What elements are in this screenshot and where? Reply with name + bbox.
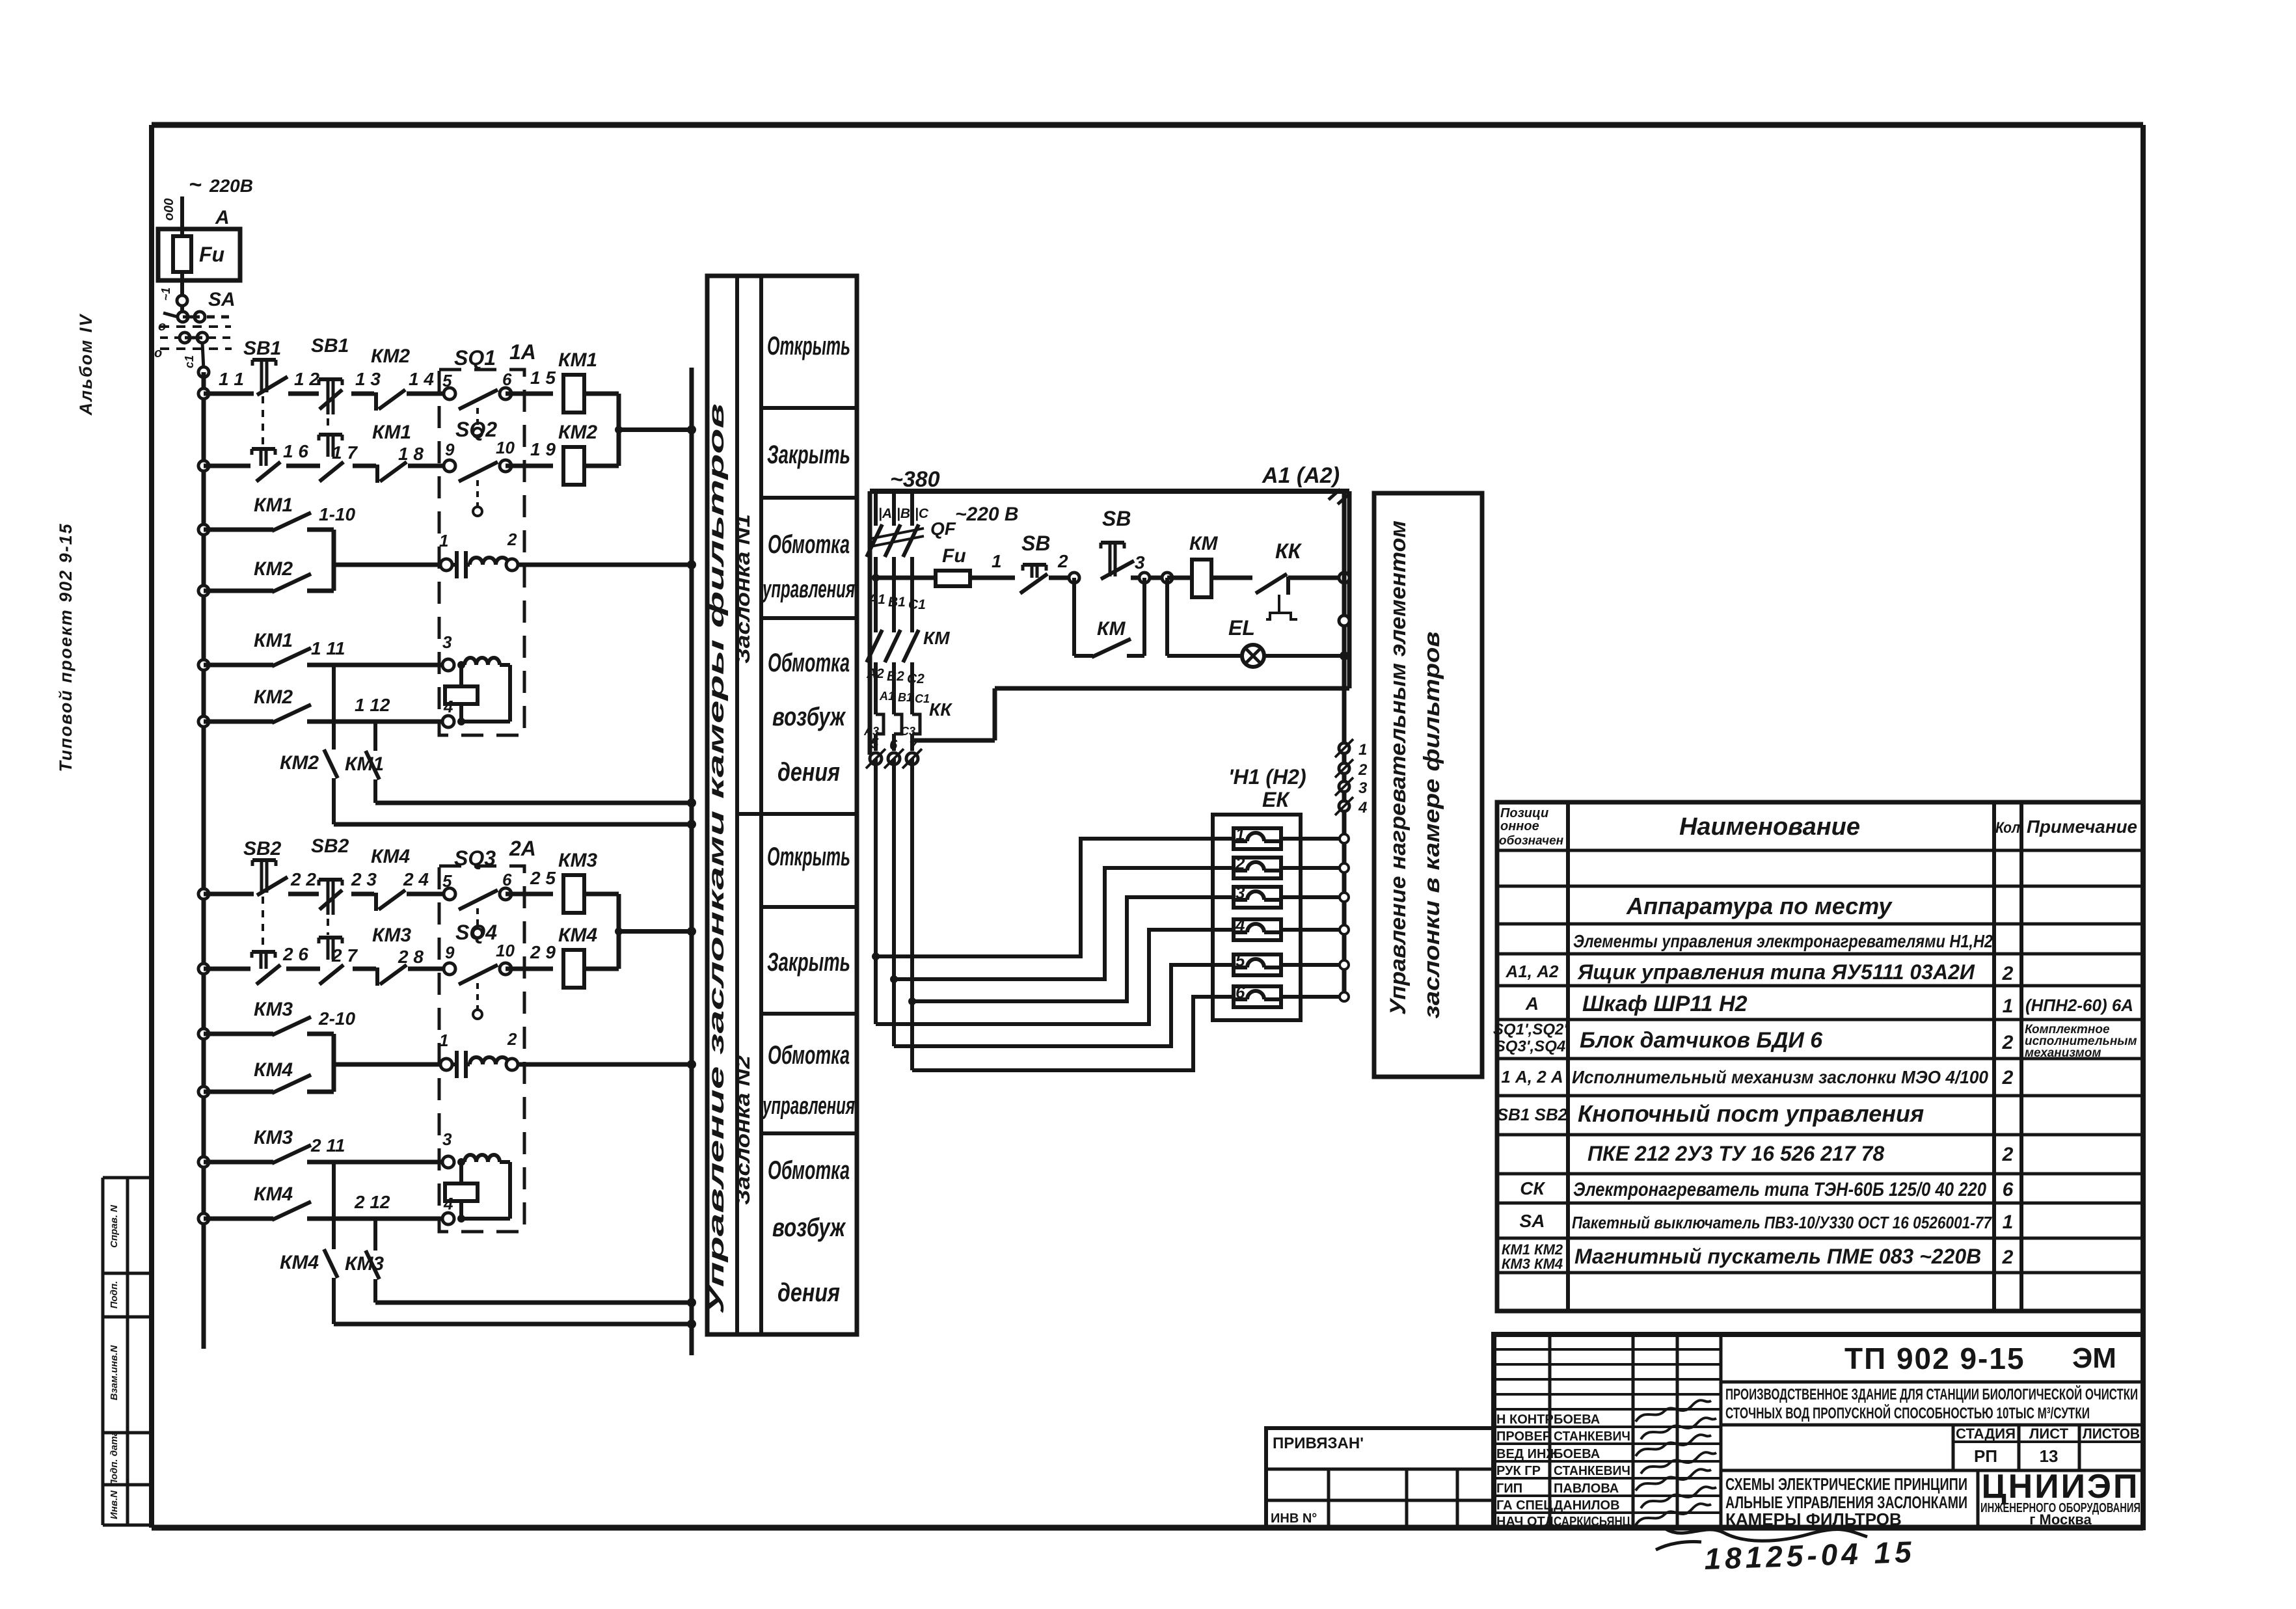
- pushbutton SB1 second contact rung close: [252, 447, 275, 451]
- interlock wire to bus: [375, 801, 692, 805]
- return wire of control circuit: [995, 686, 1349, 691]
- svg-text:ДАНИЛОВ: ДАНИЛОВ: [1554, 1498, 1620, 1513]
- svg-text:ЛИСТ: ЛИСТ: [2029, 1426, 2069, 1442]
- title block stage/sheet box: [1952, 1425, 1955, 1470]
- svg-text:КМ: КМ: [1097, 618, 1126, 640]
- svg-text:2: 2: [2002, 1067, 2014, 1088]
- svg-text:9: 9: [445, 440, 455, 459]
- heater element 1 wire to N bus: [1281, 837, 1344, 841]
- svg-text:КМ1: КМ1: [254, 630, 293, 651]
- svg-text:КМ: КМ: [1189, 533, 1218, 554]
- interlock wire to bus: [334, 822, 692, 827]
- signal lamp EL branch: [1165, 578, 1169, 656]
- heater phase staircase wiring: [874, 759, 878, 1024]
- svg-text:SQ1: SQ1: [454, 346, 496, 370]
- svg-text:обозначен: обозначен: [1499, 834, 1564, 848]
- phase wires to KM contacts: [874, 557, 878, 632]
- wire: [351, 392, 374, 396]
- wire into actuator box: [408, 967, 450, 971]
- svg-text:Инв.N: Инв.N: [109, 1490, 120, 1519]
- svg-text:10: 10: [496, 941, 515, 960]
- heater element 5: [1234, 954, 1281, 975]
- svg-text:А1 (А2): А1 (А2): [1262, 463, 1340, 488]
- wire label 2, node: [1049, 576, 1074, 580]
- svg-text:С1: С1: [915, 692, 930, 705]
- svg-text:2: 2: [1235, 854, 1245, 873]
- wire to coil: [506, 392, 553, 396]
- wire to control winding: [334, 1062, 446, 1067]
- svg-text:SQ4: SQ4: [455, 921, 497, 944]
- wire coil to return: [584, 464, 619, 468]
- svg-text:ГА СПЕЦ: ГА СПЕЦ: [1496, 1498, 1553, 1513]
- svg-text:|А: |А: [878, 506, 892, 521]
- interlock contact КМ4 NC (vertical): [332, 1162, 336, 1249]
- attachment table PRIVYAZAN: [1266, 1428, 1494, 1528]
- svg-text:Электронагреватель типа ТЭН-6: Электронагреватель типа ТЭН-60Б 125/0 40…: [1573, 1179, 1986, 1200]
- brake loop right side: [508, 1162, 512, 1219]
- svg-text:КАМЕРЫ ФИЛЬТРОВ: КАМЕРЫ ФИЛЬТРОВ: [1725, 1509, 1902, 1529]
- svg-text:КМ4: КМ4: [254, 1059, 293, 1081]
- svg-text:Магнитный пускатель ПМЕ 083: Магнитный пускатель ПМЕ 083 ~220В: [1574, 1245, 1981, 1268]
- box A1 right edge: [1347, 491, 1352, 688]
- svg-text:дения: дения: [777, 758, 840, 787]
- wire coil to thermal contact KK: [1211, 576, 1252, 580]
- wire brake top, terminal 3: [307, 1160, 442, 1165]
- left margin stamp strip: [101, 1178, 105, 1525]
- svg-text:3: 3: [442, 632, 452, 652]
- bracket join of aux contacts: [332, 530, 336, 591]
- svg-text:ВЕД ИНЖ: ВЕД ИНЖ: [1496, 1447, 1558, 1461]
- excitation winding inductor: [465, 658, 476, 665]
- auxiliary contact КМ1 NO brake row: [198, 660, 209, 670]
- svg-text:Пакетный выключатель ПВ3-10/У3: Пакетный выключатель ПВ3-10/У330 ОСТ 16 …: [1572, 1213, 1992, 1232]
- svg-text:РУК ГР: РУК ГР: [1496, 1464, 1541, 1478]
- svg-text:1 А, 2 А: 1 А, 2 А: [1501, 1067, 1563, 1087]
- heater element 4: [1234, 919, 1281, 940]
- svg-text:2 2: 2 2: [290, 869, 316, 889]
- auxiliary contact КМ2 NO brake bottom row: [198, 716, 209, 727]
- svg-text:1: 1: [1236, 824, 1245, 844]
- svg-text:А: А: [1525, 994, 1539, 1014]
- wire to coil: [506, 892, 553, 897]
- heater element 3 wire to N bus: [1281, 895, 1344, 899]
- heater element 4 wire to N bus: [1281, 928, 1344, 932]
- interlock contact КМ3 NC (vertical): [373, 1219, 377, 1251]
- wire brake top, terminal 3: [307, 663, 442, 668]
- svg-text:БОЕВА: БОЕВА: [1554, 1413, 1600, 1427]
- wire to coil: [506, 967, 553, 971]
- parts table grid: [1497, 802, 2143, 1311]
- svg-text:~1: ~1: [159, 288, 172, 301]
- heater feed wire 2: [894, 868, 1234, 979]
- svg-text:SQ2: SQ2: [455, 418, 497, 441]
- svg-text:6: 6: [2003, 1179, 2014, 1200]
- svg-text:КМ2: КМ2: [254, 686, 293, 708]
- drawing border frame: [152, 122, 2143, 128]
- svg-text:ПАВЛОВА: ПАВЛОВА: [1554, 1481, 1619, 1496]
- svg-text:2 8: 2 8: [398, 947, 424, 967]
- heater element 5 wire to N bus: [1281, 963, 1344, 967]
- svg-text:SB2: SB2: [243, 838, 282, 859]
- svg-text:Альбом IV: Альбом IV: [76, 314, 96, 416]
- svg-text:Шкаф ШР11 Н2: Шкаф ШР11 Н2: [1582, 992, 1748, 1016]
- svg-text:4: 4: [1235, 915, 1245, 935]
- svg-text:ТП 902 9-15: ТП 902 9-15: [1844, 1342, 2025, 1375]
- svg-text:КМ2: КМ2: [558, 422, 597, 443]
- auxiliary contact КМ3 NO brake row: [198, 1157, 209, 1167]
- svg-text:4: 4: [1358, 799, 1367, 817]
- actuator block 2А (dashed box): [439, 866, 524, 1232]
- wire: [351, 892, 374, 897]
- svg-text:1: 1: [992, 551, 1002, 571]
- auxiliary contact КМ3 NO: [198, 1029, 209, 1039]
- bracket join of aux contacts: [332, 1034, 336, 1092]
- svg-text:Типовой проект 902 9-15: Типовой проект 902 9-15: [56, 522, 75, 772]
- svg-text:Fu: Fu: [199, 243, 224, 266]
- svg-text:Подп. дата: Подп. дата: [109, 1431, 120, 1487]
- svg-text:1 5: 1 5: [530, 368, 556, 388]
- svg-text:ЕК: ЕК: [1262, 788, 1290, 811]
- svg-text:SB1: SB1: [243, 338, 281, 359]
- wire brake bottom, terminal 4: [307, 1217, 442, 1221]
- svg-text:КМ3: КМ3: [345, 1253, 384, 1275]
- title block outline: [1494, 1334, 2143, 1528]
- interlock contact КМ2 NC (vertical): [332, 665, 336, 750]
- node below fuse: [177, 295, 187, 306]
- svg-text:~380: ~380: [890, 467, 940, 492]
- svg-text:5: 5: [871, 735, 879, 751]
- svg-text:ЦНИИЭП: ЦНИИЭП: [1982, 1468, 2140, 1506]
- svg-text:1: 1: [439, 531, 448, 550]
- svg-text:управления: управления: [762, 576, 855, 603]
- wire into actuator box: [408, 464, 450, 468]
- wire to coil: [506, 464, 553, 468]
- svg-text:КМ1: КМ1: [558, 349, 597, 371]
- svg-text:SA: SA: [208, 289, 236, 310]
- heater feed wire 5: [894, 965, 1234, 1046]
- svg-text:КМ4: КМ4: [254, 1183, 293, 1205]
- wire: [353, 464, 376, 468]
- svg-text:СТОЧНЫХ ВОД ПРОПУСКНОЙ СПОСОБН: СТОЧНЫХ ВОД ПРОПУСКНОЙ СПОСОБНОСТЬЮ 10ТЫ…: [1725, 1404, 2090, 1422]
- pushbutton SB1 second NO contact rung close: [319, 433, 342, 437]
- svg-text:220В: 220В: [209, 176, 253, 196]
- svg-text:1: 1: [439, 1031, 448, 1050]
- title block signatures (scribbles): [1636, 1400, 1711, 1422]
- svg-text:КМ3: КМ3: [254, 1127, 293, 1148]
- svg-text:КМ: КМ: [923, 628, 950, 648]
- title block signature rows: [1494, 1348, 1721, 1351]
- heater feed wire 6: [912, 997, 1234, 1070]
- svg-text:механизмом: механизмом: [2025, 1046, 2101, 1060]
- svg-text:2 9: 2 9: [530, 942, 556, 962]
- svg-text:2 3: 2 3: [351, 869, 377, 889]
- heater feed wire 4: [876, 930, 1234, 1024]
- heater feed wire 3: [912, 897, 1234, 1001]
- svg-text:КМ4: КМ4: [280, 1252, 319, 1273]
- actuator block 1А (dashed box): [439, 370, 524, 735]
- svg-text:КМ3: КМ3: [372, 925, 411, 946]
- svg-text:1 3: 1 3: [355, 369, 381, 389]
- wire rung close (22): [198, 964, 209, 974]
- svg-text:Заслонка N1: Заслонка N1: [731, 514, 754, 664]
- svg-text:9: 9: [445, 943, 455, 962]
- svg-text:возбуж: возбуж: [772, 703, 846, 731]
- svg-text:2: 2: [2002, 963, 2014, 984]
- svg-text:1 12: 1 12: [355, 695, 390, 715]
- svg-text:Элементы управления электронаг: Элементы управления электронагревателями…: [1573, 931, 1993, 951]
- svg-text:дения: дения: [777, 1278, 840, 1307]
- wire phase A to fuse Fu: [872, 574, 880, 582]
- auxiliary contact КМ4 NO brake bottom row: [198, 1213, 209, 1224]
- svg-text:5: 5: [442, 871, 452, 891]
- svg-text:2 6: 2 6: [282, 944, 308, 964]
- svg-text:Закрыть: Закрыть: [767, 440, 850, 469]
- svg-text:SB: SB: [1102, 507, 1131, 530]
- svg-text:1-10: 1-10: [319, 504, 355, 524]
- auxiliary contact КМ4 NO: [198, 1087, 209, 1097]
- svg-text:возбуж: возбуж: [772, 1213, 846, 1242]
- wire fuse to switch SA: [180, 280, 184, 301]
- brake rectifier block: [445, 1183, 478, 1201]
- svg-text:SB1 SB2: SB1 SB2: [1497, 1105, 1568, 1124]
- heater element 3: [1234, 887, 1281, 908]
- wire rung open (11): [198, 388, 209, 399]
- svg-text:Открыть: Открыть: [767, 332, 850, 360]
- svg-text:1 4: 1 4: [409, 369, 434, 389]
- svg-text:2А: 2А: [509, 837, 536, 860]
- svg-text:Fu: Fu: [942, 545, 966, 567]
- svg-text:Обмотка: Обмотка: [768, 649, 850, 677]
- svg-text:Аппаратура по месту: Аппаратура по месту: [1626, 893, 1893, 919]
- coil return vertical and tie to bus: [617, 894, 621, 969]
- title block signature columns: [1548, 1334, 1552, 1528]
- wire: [286, 967, 320, 971]
- svg-text:Управление заслонками камеры: Управление заслонками камеры фильтров: [704, 403, 728, 1314]
- svg-text:САРКИСЬЯНЦ: САРКИСЬЯНЦ: [1554, 1515, 1630, 1529]
- fuse Fu in cabinet box: [158, 229, 240, 280]
- svg-text:2: 2: [2002, 1032, 2014, 1053]
- coil return vertical and tie to bus: [617, 394, 621, 466]
- interlock wire to bus: [375, 1301, 692, 1305]
- svg-text:1А: 1А: [509, 340, 536, 364]
- svg-text:Закрыть: Закрыть: [767, 948, 850, 977]
- svg-text:ЭМ: ЭМ: [2072, 1342, 2116, 1374]
- wire label 3, node: [1131, 576, 1167, 580]
- svg-text:2: 2: [1358, 761, 1368, 779]
- svg-text:6: 6: [889, 737, 898, 753]
- svg-text:о: о: [158, 319, 166, 334]
- svg-text:А1, А2: А1, А2: [1506, 962, 1559, 981]
- svg-text:ЛИСТОВ: ЛИСТОВ: [2083, 1426, 2140, 1442]
- svg-text:КМ2: КМ2: [280, 752, 319, 774]
- svg-text:1 2: 1 2: [294, 369, 319, 389]
- svg-text:онное: онное: [1500, 819, 1539, 833]
- svg-text:ПРОВЕР: ПРОВЕР: [1496, 1429, 1551, 1444]
- svg-text:Управление нагревательным эл: Управление нагревательным элементом: [1386, 521, 1411, 1015]
- middle table: valve control functions: [707, 276, 857, 1334]
- svg-text:Ящик управления типа ЯУ5111: Ящик управления типа ЯУ5111 03А2И: [1577, 960, 1975, 984]
- svg-text:4: 4: [443, 697, 453, 716]
- wire to control winding: [334, 563, 446, 567]
- svg-text:2 4: 2 4: [403, 869, 429, 889]
- self-hold contact KM branch: [1072, 578, 1076, 656]
- svg-text:КМ1: КМ1: [372, 422, 411, 443]
- svg-text:СТАНКЕВИЧ: СТАНКЕВИЧ: [1554, 1464, 1630, 1478]
- svg-text:КМ3 КМ4: КМ3 КМ4: [1502, 1256, 1563, 1272]
- svg-text:Исполнительный механизм засл: Исполнительный механизм заслонки МЭО 4/1…: [1572, 1067, 1988, 1087]
- wire: [286, 464, 320, 468]
- svg-text:6: 6: [502, 370, 512, 389]
- svg-text:SQ1',SQ2': SQ1',SQ2': [1493, 1021, 1568, 1038]
- svg-text:3: 3: [442, 1129, 452, 1149]
- svg-text:6: 6: [1236, 982, 1245, 1002]
- svg-text:КМ1: КМ1: [345, 753, 384, 775]
- svg-text:Обмотка: Обмотка: [768, 530, 850, 559]
- svg-text:SA: SA: [1520, 1211, 1545, 1231]
- auxiliary contact КМ2 NO: [198, 586, 209, 596]
- svg-text:Блок датчиков БДИ 6: Блок датчиков БДИ 6: [1580, 1028, 1823, 1053]
- svg-text:о00: о00: [162, 198, 176, 221]
- wire into actuator box: [407, 392, 450, 396]
- svg-text:1: 1: [2003, 995, 2014, 1017]
- right control bus (vertical): [690, 368, 694, 1355]
- svg-text:13: 13: [2040, 1446, 2059, 1466]
- svg-text:Взам.инв.N: Взам.инв.N: [109, 1345, 120, 1401]
- svg-text:Заслонка N2: Заслонка N2: [731, 1055, 754, 1205]
- wire into actuator box: [407, 892, 450, 897]
- svg-text:2 5: 2 5: [530, 868, 556, 888]
- excitation winding inductor: [465, 1155, 476, 1162]
- pushbutton SB2 second contact rung close: [252, 950, 275, 954]
- svg-text:КМ3: КМ3: [254, 999, 293, 1020]
- svg-text:2: 2: [2002, 1247, 2014, 1268]
- svg-text:КК: КК: [929, 699, 952, 720]
- svg-text:заслонки в камере фильтров: заслонки в камере фильтров: [1420, 632, 1444, 1019]
- svg-text:КМ4: КМ4: [558, 925, 597, 946]
- svg-text:НАЧ ОТД: НАЧ ОТД: [1496, 1515, 1554, 1529]
- svg-text:2 11: 2 11: [310, 1135, 345, 1156]
- svg-text:1 8: 1 8: [398, 444, 424, 464]
- svg-text:о: о: [154, 346, 162, 360]
- svg-text:|С: |С: [915, 506, 929, 521]
- svg-text:SB1: SB1: [311, 335, 349, 357]
- svg-text:С3: С3: [900, 725, 915, 738]
- svg-text:управления: управления: [762, 1092, 855, 1120]
- svg-text:ГИП: ГИП: [1496, 1481, 1522, 1496]
- box A1 left edge: [868, 491, 872, 755]
- svg-text:1: 1: [1358, 741, 1367, 759]
- brake rectifier block: [445, 686, 478, 704]
- heater element 6: [1234, 986, 1281, 1007]
- wire rung open (21): [198, 889, 209, 899]
- svg-text:2: 2: [507, 530, 517, 549]
- svg-text:В1: В1: [888, 595, 906, 610]
- break mark at corner: [1329, 489, 1340, 500]
- svg-text:SQ3: SQ3: [454, 846, 496, 870]
- svg-text:2: 2: [507, 1029, 517, 1049]
- svg-text:А: А: [215, 207, 230, 228]
- svg-text:6: 6: [502, 870, 512, 889]
- svg-text:1 11: 1 11: [311, 638, 345, 658]
- svg-text:КМ3: КМ3: [558, 850, 597, 871]
- svg-text:~220 В: ~220 В: [955, 504, 1019, 525]
- svg-text:1 9: 1 9: [530, 439, 556, 459]
- svg-text:~: ~: [189, 172, 202, 197]
- svg-text:SB2: SB2: [311, 835, 349, 857]
- svg-text:РП: РП: [1974, 1446, 1997, 1466]
- svg-text:Позици: Позици: [1500, 806, 1548, 820]
- interlock wire to bus: [334, 1322, 692, 1327]
- svg-text:5: 5: [442, 371, 452, 390]
- svg-text:3: 3: [1358, 779, 1368, 797]
- svg-text:КМ1: КМ1: [254, 494, 293, 516]
- heater element 6 wire to N bus: [1281, 995, 1344, 999]
- N wire vertical to heaters: [1342, 491, 1347, 997]
- svg-text:1: 1: [2003, 1211, 2014, 1233]
- svg-text:SB: SB: [1021, 532, 1050, 555]
- svg-text:2-10: 2-10: [318, 1008, 355, 1029]
- wire brake bottom, terminal 4: [307, 720, 442, 724]
- svg-text:г Москва: г Москва: [2029, 1511, 2092, 1528]
- svg-text:БОЕВА: БОЕВА: [1554, 1447, 1600, 1461]
- svg-text:КМ2: КМ2: [371, 345, 410, 367]
- wire: [288, 392, 319, 396]
- brake loop right side: [508, 665, 512, 722]
- svg-text:С2: С2: [907, 671, 925, 686]
- wire: [353, 967, 376, 971]
- right rotated caption box: heater element control: [1374, 493, 1482, 1077]
- wire coil to return: [584, 392, 619, 396]
- wire 220V drop to fuse: [180, 196, 184, 229]
- svg-text:3: 3: [1236, 883, 1245, 902]
- wire control winding to bus: [518, 1062, 692, 1067]
- svg-text:Обмотка: Обмотка: [768, 1156, 850, 1185]
- svg-text:5: 5: [1236, 951, 1245, 970]
- svg-text:4: 4: [443, 1194, 453, 1213]
- svg-text:Н КОНТР: Н КОНТР: [1496, 1413, 1554, 1427]
- svg-text:2: 2: [1057, 551, 1068, 571]
- svg-text:Кол: Кол: [1995, 819, 2020, 837]
- wire coil to return: [584, 967, 619, 971]
- svg-text:'Н1 (Н2): 'Н1 (Н2): [1228, 765, 1306, 789]
- svg-text:СК: СК: [1520, 1178, 1545, 1198]
- svg-text:СТАНКЕВИЧ: СТАНКЕВИЧ: [1554, 1429, 1630, 1444]
- svg-text:Кнопочный пост управления: Кнопочный пост управления: [1578, 1100, 1924, 1127]
- svg-text:СТАДИЯ: СТАДИЯ: [1956, 1426, 2016, 1442]
- svg-text:2 12: 2 12: [354, 1192, 390, 1212]
- svg-text:(НПН2-60) 6А: (НПН2-60) 6А: [2025, 995, 2133, 1015]
- svg-text:ПРОИЗВОДСТВЕННОЕ ЗДАНИЕ ДЛЯ СТ: ПРОИЗВОДСТВЕННОЕ ЗДАНИЕ ДЛЯ СТАНЦИИ БИОЛ…: [1725, 1385, 2138, 1403]
- interlock contact КМ1 NC (vertical): [373, 722, 377, 751]
- heater element 1: [1234, 828, 1281, 849]
- auxiliary contact КМ1 NO: [198, 524, 209, 535]
- wire rung close (12): [198, 461, 209, 471]
- wire label 1: [970, 576, 1015, 580]
- terminals 1-4 on N wire: [1339, 743, 1349, 753]
- left control rail (vertical): [202, 372, 206, 1349]
- heater element 2: [1234, 858, 1281, 878]
- svg-text:Обмотка: Обмотка: [768, 1041, 850, 1070]
- svg-text:1 6: 1 6: [283, 441, 308, 461]
- svg-text:2 7: 2 7: [331, 945, 358, 966]
- heater element 2 wire to N bus: [1281, 866, 1344, 870]
- svg-text:Подп.: Подп.: [109, 1281, 120, 1309]
- svg-text:СХЕМЫ ЭЛЕКТРИЧЕСКИЕ ПРИНЦИПИ: СХЕМЫ ЭЛЕКТРИЧЕСКИЕ ПРИНЦИПИ: [1725, 1474, 1967, 1494]
- svg-text:ИНВ N°: ИНВ N°: [1271, 1511, 1317, 1526]
- svg-text:Наименование: Наименование: [1679, 813, 1860, 841]
- svg-text:КМ4: КМ4: [371, 846, 410, 867]
- svg-text:10: 10: [496, 438, 515, 457]
